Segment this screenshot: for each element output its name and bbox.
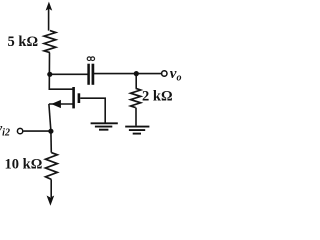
svg-text:vo: vo	[170, 66, 182, 84]
svg-text:5 kΩ: 5 kΩ	[8, 34, 39, 50]
svg-text:vi2: vi2	[0, 121, 10, 138]
svg-text:10 kΩ: 10 kΩ	[5, 157, 43, 173]
svg-text:2 kΩ: 2 kΩ	[142, 89, 173, 105]
